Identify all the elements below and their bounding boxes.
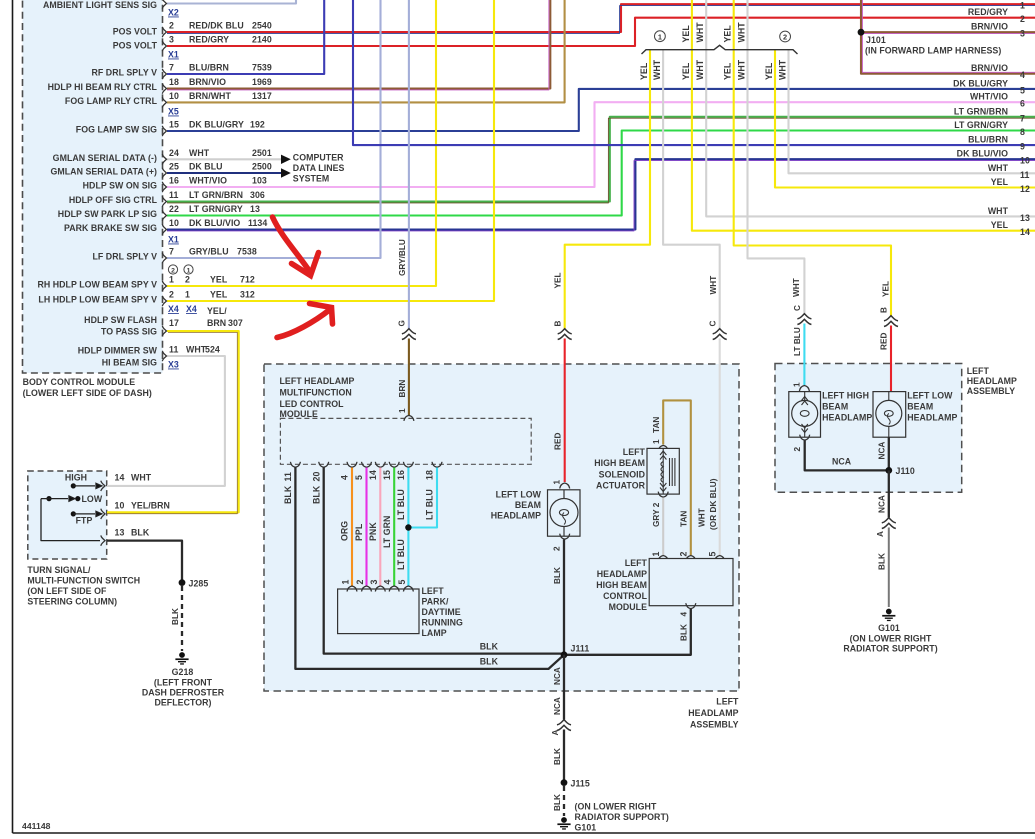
- wire BLU/BRN to right edge line 9: [353, 0, 1035, 145]
- svg-text:WHT: WHT: [695, 59, 705, 80]
- page left border: [12, 0, 14, 833]
- svg-text:2: 2: [185, 275, 190, 285]
- park lamp top pin caps: [347, 586, 357, 592]
- svg-text:HEADLAMP: HEADLAMP: [907, 413, 957, 423]
- svg-text:C: C: [708, 321, 717, 327]
- svg-text:(IN FORWARD LAMP HARNESS): (IN FORWARD LAMP HARNESS): [865, 46, 1001, 56]
- svg-text:POS VOLT: POS VOLT: [113, 41, 158, 51]
- wire BLK pin 20 to J111: [324, 468, 562, 654]
- svg-text:RED: RED: [553, 433, 562, 450]
- svg-text:J111: J111: [571, 644, 590, 654]
- svg-text:2: 2: [553, 546, 562, 551]
- svg-text:22: 22: [169, 204, 179, 214]
- svg-text:YEL: YEL: [553, 272, 562, 288]
- svg-text:HDLP SW FLASH: HDLP SW FLASH: [84, 315, 157, 325]
- svg-text:HEADLAMP: HEADLAMP: [822, 413, 872, 423]
- svg-text:WHT: WHT: [736, 22, 746, 43]
- svg-text:1: 1: [553, 480, 562, 485]
- wire RED connector B to left low beam headlamp pin 1: [564, 339, 566, 483]
- svg-text:WHT: WHT: [988, 163, 1009, 173]
- node J111: [561, 651, 568, 658]
- circled 2 at bracket: [780, 31, 791, 42]
- wire NCA low beam to J110: [888, 437, 890, 470]
- svg-text:MULTI-FUNCTION SWITCH: MULTI-FUNCTION SWITCH: [27, 576, 140, 586]
- svg-text:4: 4: [1020, 70, 1025, 80]
- circled connector numbers 2 and 1 at BCM: [168, 265, 193, 274]
- svg-text:NCA: NCA: [553, 697, 562, 715]
- svg-text:5: 5: [354, 475, 364, 480]
- wire LT GRN/BRN 306 to right edge line 7: [167, 117, 1035, 202]
- svg-text:1317: 1317: [252, 91, 272, 101]
- svg-text:2: 2: [783, 33, 787, 42]
- svg-text:18: 18: [169, 77, 179, 87]
- BCM pin numbers / wire colors / circuit numbers: [168, 8, 272, 370]
- svg-text:LT GRN/GRY: LT GRN/GRY: [954, 120, 1008, 130]
- svg-text:HIGH BEAM: HIGH BEAM: [596, 580, 647, 590]
- svg-text:LEFT LOW: LEFT LOW: [496, 490, 542, 500]
- wire WHT 524 BCM to turn signal switch pin 14: [107, 356, 225, 486]
- left headlamp multifunction led control module assembly box: [264, 364, 739, 691]
- svg-text:524: 524: [205, 345, 220, 355]
- svg-text:RED: RED: [880, 333, 889, 350]
- svg-text:1: 1: [658, 32, 662, 41]
- svg-text:BLK: BLK: [311, 485, 321, 504]
- svg-text:DATA LINES: DATA LINES: [293, 163, 345, 173]
- svg-text:YEL: YEL: [681, 62, 691, 80]
- svg-text:(ON LOWER RIGHT: (ON LOWER RIGHT: [850, 634, 932, 644]
- svg-text:FTP: FTP: [76, 516, 93, 526]
- svg-text:YEL/BRN: YEL/BRN: [131, 501, 170, 511]
- solenoid symbol: [660, 448, 675, 494]
- svg-text:1: 1: [651, 552, 661, 557]
- circled 1 at bracket: [655, 31, 666, 42]
- wire NCA high beam pin 2 to J110: [805, 441, 886, 471]
- svg-text:20: 20: [311, 472, 321, 482]
- svg-text:6: 6: [1020, 99, 1025, 109]
- left low beam headlamp (right): [873, 392, 906, 438]
- svg-text:4: 4: [383, 580, 393, 585]
- ground G218: [175, 652, 188, 665]
- svg-text:TAN: TAN: [652, 417, 661, 433]
- svg-text:J115: J115: [571, 779, 590, 789]
- svg-text:BLK: BLK: [480, 657, 499, 667]
- svg-text:DASH DEFROSTER: DASH DEFROSTER: [142, 688, 225, 698]
- svg-text:DK BLU/VIO: DK BLU/VIO: [957, 149, 1008, 159]
- svg-text:RH HDLP LOW BEAM SPY V: RH HDLP LOW BEAM SPY V: [37, 280, 157, 290]
- svg-text:3: 3: [369, 580, 379, 585]
- svg-text:2: 2: [171, 268, 175, 275]
- node J110: [885, 467, 892, 474]
- svg-text:HDLP SW PARK LP SIG: HDLP SW PARK LP SIG: [58, 209, 157, 219]
- wire LT BLU connector C to left high beam headlamp pin 1 (right assembly): [803, 324, 805, 386]
- svg-text:2140: 2140: [252, 35, 272, 45]
- svg-text:BLK: BLK: [283, 485, 293, 504]
- svg-text:GMLAN SERIAL DATA (-): GMLAN SERIAL DATA (-): [53, 153, 157, 163]
- svg-text:DEFLECTOR): DEFLECTOR): [154, 698, 211, 708]
- svg-text:YEL: YEL: [991, 220, 1009, 230]
- svg-text:YEL: YEL: [723, 25, 733, 43]
- svg-text:WHT: WHT: [792, 278, 801, 297]
- node J285: [179, 579, 186, 586]
- svg-text:RUNNING: RUNNING: [422, 618, 464, 628]
- svg-text:1: 1: [398, 408, 407, 413]
- FTP contact: [71, 511, 76, 516]
- svg-text:LEFT: LEFT: [716, 697, 739, 707]
- left headlamp assembly box (right): [775, 364, 962, 493]
- svg-text:2: 2: [169, 21, 174, 31]
- svg-text:DAYTIME: DAYTIME: [422, 607, 461, 617]
- svg-text:312: 312: [240, 290, 255, 300]
- svg-text:LT GRN/GRY: LT GRN/GRY: [189, 204, 243, 214]
- svg-text:17: 17: [169, 318, 179, 328]
- svg-text:LH HDLP LOW BEAM SPY V: LH HDLP LOW BEAM SPY V: [38, 295, 157, 305]
- svg-text:YEL: YEL: [882, 281, 891, 297]
- svg-text:BRN/WHT: BRN/WHT: [189, 91, 231, 101]
- wire BLK low beam pin 2 to J111: [563, 540, 565, 655]
- svg-text:BRN/VIO: BRN/VIO: [971, 22, 1008, 32]
- wire YEL 312 (exits top): [167, 0, 494, 301]
- svg-text:1: 1: [187, 268, 191, 275]
- wire BRN/VIO junction J101 vertical to right edge lines 3 and 4: [861, 0, 1035, 74]
- svg-text:2: 2: [793, 447, 802, 452]
- svg-text:WHT: WHT: [736, 59, 746, 80]
- svg-text:BLK: BLK: [877, 553, 886, 570]
- svg-text:HIGH BEAM: HIGH BEAM: [594, 458, 645, 468]
- wire LT BLU pin 16 to park lamp pin 5: [407, 468, 409, 587]
- svg-text:14: 14: [1020, 227, 1030, 237]
- svg-text:(ON LEFT SIDE OF: (ON LEFT SIDE OF: [27, 586, 107, 596]
- svg-text:18: 18: [425, 470, 435, 480]
- BCM left signal labels: [37, 0, 157, 368]
- svg-text:BLK: BLK: [553, 794, 562, 811]
- connector C (center): [713, 329, 727, 340]
- low beam headlamp box: [548, 490, 581, 536]
- left headlamp high beam control module: [658, 556, 668, 562]
- wire pair1 YEL to connector B (center module low beam): [565, 50, 650, 329]
- rotated YEL WHT labels below bracket (pairs 1-4): [639, 59, 788, 80]
- svg-text:7: 7: [169, 247, 174, 257]
- computer data lines arrow 1: [281, 155, 291, 164]
- svg-text:10: 10: [169, 218, 179, 228]
- svg-text:X4: X4: [186, 304, 197, 314]
- svg-text:14: 14: [368, 470, 378, 480]
- svg-text:YEL: YEL: [681, 25, 691, 43]
- svg-text:WHT: WHT: [777, 59, 787, 80]
- wire GRY/BLU 7538 (exits top): [167, 0, 381, 258]
- svg-text:BLU/BRN: BLU/BRN: [189, 63, 229, 73]
- BCM pin symbols on right edge of box: [162, 0, 166, 361]
- wire DK BLU/VIO 1134 to right edge line 10: [167, 159, 1035, 229]
- svg-text:WHT: WHT: [652, 59, 662, 80]
- wire LT GRN/GRY 13 to right edge line 8: [167, 131, 1035, 216]
- svg-text:1: 1: [169, 275, 174, 285]
- svg-text:WHT/VIO: WHT/VIO: [970, 92, 1008, 102]
- svg-text:2: 2: [678, 552, 688, 557]
- wire BLK turn signal pin 13 to J285: [107, 541, 182, 583]
- svg-text:441148: 441148: [22, 821, 51, 831]
- dashed BLK wire J115 to ground G101: [563, 786, 565, 816]
- svg-text:LT BLU: LT BLU: [793, 327, 802, 356]
- svg-text:HDLP SW ON SIG: HDLP SW ON SIG: [83, 181, 157, 191]
- svg-text:PARK/: PARK/: [422, 597, 449, 607]
- svg-text:RADIATOR SUPPORT): RADIATOR SUPPORT): [575, 812, 669, 822]
- svg-text:LT GRN/BRN: LT GRN/BRN: [954, 106, 1008, 116]
- svg-text:LEFT: LEFT: [625, 558, 648, 568]
- wire RED connector B to left low beam headlamp (right assembly): [890, 326, 892, 393]
- svg-text:BEAM: BEAM: [515, 500, 541, 510]
- wire pair3 YEL to connector B of left headlamp assembly: [734, 0, 891, 316]
- HIGH contact: [71, 483, 76, 488]
- red arrow 2: [277, 304, 333, 338]
- turn signal pin chevrons: [101, 481, 105, 491]
- wire BLU/BRN 7539 (exits top): [167, 0, 324, 74]
- svg-text:LT GRN/BRN: LT GRN/BRN: [189, 190, 243, 200]
- svg-text:NCA: NCA: [877, 442, 886, 460]
- svg-text:BLK: BLK: [131, 528, 150, 538]
- svg-text:103: 103: [252, 176, 267, 186]
- connector C (right assembly): [797, 314, 811, 325]
- svg-text:YEL: YEL: [639, 62, 649, 80]
- wire BLK pin 11 to J111: [295, 468, 564, 669]
- svg-text:RED/GRY: RED/GRY: [189, 35, 229, 45]
- svg-text:GMLAN SERIAL DATA (+): GMLAN SERIAL DATA (+): [50, 167, 157, 177]
- wire GRY/BLU from top to connector G: [408, 0, 410, 329]
- svg-text:12: 12: [1020, 184, 1030, 194]
- svg-text:WHT/VIO: WHT/VIO: [189, 176, 227, 186]
- svg-text:A: A: [876, 531, 885, 537]
- svg-text:HDLP OFF SIG CTRL: HDLP OFF SIG CTRL: [69, 195, 158, 205]
- svg-text:HEADLAMP: HEADLAMP: [967, 376, 1017, 386]
- pin 1 cap on inner rect top: [404, 415, 414, 421]
- svg-text:LEFT HEADLAMP: LEFT HEADLAMP: [280, 376, 355, 386]
- wire pair4 WHT to right edge line 11: [789, 50, 1035, 173]
- inner rect bottom pin cups: [290, 462, 300, 468]
- wire ORG pin 4 to park lamp pin 1: [351, 468, 353, 587]
- left high beam headlamp pin 2: [800, 435, 810, 441]
- svg-text:BODY CONTROL MODULE: BODY CONTROL MODULE: [23, 377, 136, 387]
- svg-text:14: 14: [115, 473, 125, 483]
- svg-text:BRN: BRN: [398, 380, 407, 398]
- svg-text:HDLP HI BEAM RLY CTRL: HDLP HI BEAM RLY CTRL: [48, 82, 158, 92]
- svg-text:X2: X2: [168, 8, 179, 18]
- svg-text:YEL: YEL: [991, 177, 1009, 187]
- svg-text:2540: 2540: [252, 21, 272, 31]
- svg-text:LOW: LOW: [82, 494, 103, 504]
- svg-text:X1: X1: [168, 235, 179, 245]
- svg-text:CONTROL: CONTROL: [603, 591, 647, 601]
- wire AMBIENT LIGHT SENS SIG (exits top): [167, 0, 296, 4]
- wire pair4 YEL to right edge line 12: [775, 50, 1035, 188]
- svg-text:MULTIFUNCTION: MULTIFUNCTION: [280, 388, 352, 398]
- svg-text:G101: G101: [878, 623, 900, 633]
- connector G: [402, 329, 416, 340]
- svg-text:G: G: [398, 320, 407, 326]
- svg-text:MODULE: MODULE: [280, 409, 318, 419]
- body control module box: [23, 0, 163, 373]
- junction dot on LT BLU: [405, 524, 411, 530]
- svg-text:HI BEAM SIG: HI BEAM SIG: [102, 358, 157, 368]
- svg-text:7: 7: [169, 63, 174, 73]
- svg-text:G218: G218: [172, 667, 194, 677]
- wire NCA J111 down through connector to J115: [563, 655, 565, 720]
- svg-text:1134: 1134: [248, 218, 267, 228]
- svg-text:11: 11: [169, 345, 178, 355]
- svg-text:YEL: YEL: [210, 290, 228, 300]
- svg-text:4: 4: [679, 612, 688, 617]
- svg-text:LEFT HIGH: LEFT HIGH: [822, 391, 869, 401]
- red arrow 1: [273, 217, 319, 276]
- svg-text:PNK: PNK: [368, 522, 378, 541]
- svg-text:10: 10: [169, 91, 179, 101]
- svg-text:DK BLU: DK BLU: [189, 162, 223, 172]
- wire PNK pin 14 to park lamp pin 3: [379, 468, 381, 587]
- svg-text:7539: 7539: [252, 63, 272, 73]
- svg-text:GRY 2: GRY 2: [652, 502, 661, 527]
- wire RED/DK BLU 2540 to right edge line 1: [167, 4, 1035, 32]
- wire BRN connector G to led control module pin 1: [408, 339, 410, 416]
- svg-text:ACTUATOR: ACTUATOR: [596, 481, 646, 491]
- svg-text:X1: X1: [168, 50, 179, 60]
- svg-text:192: 192: [250, 120, 265, 130]
- wire DK BLU/GRY 192 to right edge line 5: [167, 89, 1035, 131]
- svg-text:BLK: BLK: [171, 608, 180, 625]
- wire NCA J110 down through connector A: [888, 470, 890, 517]
- svg-text:BLK: BLK: [553, 748, 562, 765]
- svg-text:PARK BRAKE SW SIG: PARK BRAKE SW SIG: [64, 223, 157, 233]
- page bottom border: [13, 832, 1035, 834]
- svg-text:306: 306: [250, 190, 265, 200]
- svg-text:2501: 2501: [252, 148, 272, 158]
- svg-text:WHT: WHT: [186, 345, 207, 355]
- svg-text:NCA: NCA: [553, 667, 562, 685]
- svg-text:FOG LAMP SW SIG: FOG LAMP SW SIG: [76, 125, 157, 135]
- svg-text:LT BLU: LT BLU: [425, 489, 435, 520]
- svg-text:15: 15: [382, 470, 392, 480]
- svg-text:11: 11: [1020, 170, 1029, 180]
- node J115: [561, 779, 568, 786]
- svg-text:307: 307: [228, 318, 243, 328]
- svg-text:712: 712: [240, 275, 255, 285]
- svg-text:HEADLAMP: HEADLAMP: [491, 511, 541, 521]
- svg-text:BEAM: BEAM: [907, 402, 933, 412]
- svg-text:1969: 1969: [252, 77, 272, 87]
- svg-text:2: 2: [355, 580, 365, 585]
- svg-text:LEFT: LEFT: [623, 447, 646, 457]
- svg-text:(OR DK BLU): (OR DK BLU): [709, 478, 718, 530]
- svg-text:LEFT: LEFT: [422, 586, 445, 596]
- led control module inner dashed rect: [280, 418, 531, 464]
- svg-text:1: 1: [185, 290, 190, 300]
- svg-text:10: 10: [115, 501, 125, 511]
- svg-text:LT BLU: LT BLU: [396, 489, 406, 520]
- wire pair2 WHT to right edge line 13: [706, 0, 1035, 216]
- svg-text:X3: X3: [168, 360, 179, 370]
- dashed BLK wire J285 to ground G218: [181, 586, 183, 651]
- svg-text:ASSEMBLY: ASSEMBLY: [967, 386, 1016, 396]
- svg-text:BRN/VIO: BRN/VIO: [189, 77, 226, 87]
- svg-text:GRY/BLU: GRY/BLU: [398, 239, 407, 276]
- connector B (right assembly): [884, 316, 898, 327]
- svg-text:2: 2: [1020, 14, 1025, 24]
- svg-text:BLK: BLK: [553, 567, 562, 584]
- svg-text:16: 16: [396, 470, 406, 480]
- wire TAN solenoid pin 1 loop to control module pin 2: [663, 400, 691, 555]
- svg-text:LED CONTROL: LED CONTROL: [280, 399, 345, 409]
- svg-text:LAMP: LAMP: [422, 628, 447, 638]
- svg-text:RED/DK BLU: RED/DK BLU: [189, 21, 244, 31]
- svg-text:DK BLU/GRY: DK BLU/GRY: [189, 120, 244, 130]
- svg-text:1: 1: [652, 439, 661, 444]
- svg-text:(LEFT FRONT: (LEFT FRONT: [154, 678, 213, 688]
- left park / daytime running lamp box: [338, 589, 419, 634]
- wire YEL 712 (exits top): [167, 0, 436, 286]
- svg-text:COMPUTER: COMPUTER: [293, 153, 344, 163]
- bracket over yel/wht pairs: [642, 45, 798, 54]
- svg-text:(ON LOWER RIGHT: (ON LOWER RIGHT: [575, 802, 657, 812]
- svg-text:DK BLU/GRY: DK BLU/GRY: [953, 78, 1008, 88]
- svg-text:(LOWER LEFT SIDE OF DASH): (LOWER LEFT SIDE OF DASH): [23, 388, 152, 398]
- solenoid actuator box: [647, 448, 679, 494]
- svg-text:B: B: [553, 321, 562, 327]
- svg-text:BEAM: BEAM: [822, 402, 848, 412]
- svg-text:B: B: [880, 307, 889, 313]
- ground G101 (center): [557, 817, 570, 830]
- svg-text:FOG LAMP RLY CTRL: FOG LAMP RLY CTRL: [65, 96, 158, 106]
- svg-text:13: 13: [1020, 213, 1030, 223]
- svg-text:LT BLU: LT BLU: [396, 539, 406, 570]
- svg-text:TAN: TAN: [679, 511, 688, 527]
- node J101: [858, 29, 865, 36]
- svg-text:8: 8: [1020, 127, 1025, 137]
- svg-text:BLU/BRN: BLU/BRN: [968, 135, 1008, 145]
- svg-text:MODULE: MODULE: [609, 602, 647, 612]
- svg-text:24: 24: [169, 148, 179, 158]
- svg-text:NCA: NCA: [832, 457, 852, 467]
- svg-text:WHT: WHT: [988, 206, 1009, 216]
- wire GRY solenoid pin 2 to control module pin 1: [662, 498, 664, 556]
- wire WHT/VIO 103 to right edge line 6: [167, 102, 1035, 187]
- wire pair3 WHT to connector C of left headlamp assembly: [748, 0, 805, 314]
- svg-text:SOLENOID: SOLENOID: [599, 470, 645, 480]
- svg-text:5: 5: [397, 580, 407, 585]
- svg-text:A: A: [551, 730, 560, 736]
- LOW contact with movable arm: [75, 496, 80, 501]
- svg-text:LF DRL SPLY V: LF DRL SPLY V: [92, 252, 157, 262]
- wire BLK control module pin 4 to J111: [567, 609, 691, 655]
- svg-text:YEL: YEL: [210, 275, 228, 285]
- svg-text:LEFT LOW: LEFT LOW: [907, 391, 953, 401]
- svg-text:DK BLU/VIO: DK BLU/VIO: [189, 218, 240, 228]
- svg-text:5: 5: [1020, 85, 1025, 95]
- svg-text:NCA: NCA: [877, 495, 886, 513]
- svg-text:13: 13: [115, 528, 125, 538]
- svg-text:2: 2: [169, 290, 174, 300]
- svg-text:3: 3: [169, 35, 174, 45]
- wire pair2 YEL to right edge line 14: [692, 0, 1035, 231]
- connector B (center): [558, 329, 572, 340]
- svg-text:9: 9: [1020, 142, 1025, 152]
- wire WHT 2501 to computer data lines arrow: [167, 158, 281, 160]
- svg-text:5: 5: [707, 552, 717, 557]
- ground G101 (right): [882, 609, 895, 622]
- wire PPL pin 5 to park lamp pin 2: [365, 468, 367, 587]
- svg-text:C: C: [793, 305, 802, 311]
- svg-text:16: 16: [169, 176, 179, 186]
- svg-text:LT GRN: LT GRN: [382, 516, 392, 548]
- svg-text:PPL: PPL: [354, 523, 364, 541]
- svg-text:X5: X5: [168, 107, 179, 117]
- svg-text:WHT: WHT: [131, 473, 152, 483]
